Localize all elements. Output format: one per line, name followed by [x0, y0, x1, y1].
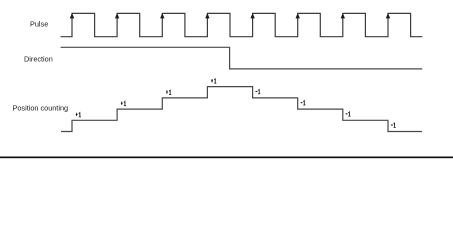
arrow on rising edge 8	[386, 13, 390, 18]
label +1 step 2	[121, 101, 126, 105]
arrow on rising edge 3	[160, 13, 164, 18]
wire direction waveform	[61, 47, 423, 69]
arrow on rising edge 7	[341, 13, 345, 18]
arrow on rising edge 5	[250, 13, 254, 18]
label -1 step 4	[391, 123, 396, 127]
wire pulse waveform	[61, 13, 423, 36]
label -1 step 3	[346, 112, 351, 116]
label -1 step 2	[301, 101, 306, 105]
arrow on rising edge 2	[115, 13, 119, 18]
svg-text:Direction: Direction	[24, 55, 53, 64]
svg-text:Pulse: Pulse	[30, 20, 48, 29]
label +1 step 3	[166, 90, 171, 94]
label -1 step 1	[256, 90, 261, 94]
arrow on rising edge 6	[296, 13, 300, 18]
svg-text:Position counting: Position counting	[13, 104, 69, 113]
label +1 step 1	[76, 113, 81, 117]
arrow on rising edge 4	[205, 13, 209, 18]
label +1 step 4	[211, 79, 216, 83]
arrow on rising edge 1	[70, 13, 74, 18]
bottom border line	[0, 157, 453, 159]
wire position counting staircase	[61, 87, 422, 132]
